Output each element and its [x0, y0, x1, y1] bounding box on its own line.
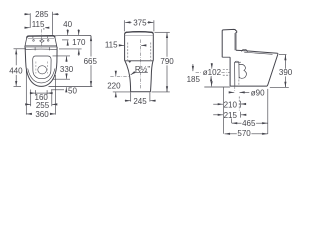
- lid joint line: [125, 35, 154, 37]
- cistern bottom shelf: [222, 56, 230, 58]
- svg-text:220: 220: [107, 81, 121, 90]
- dim 360 line arrows inside: [27, 113, 32, 115]
- dim 790 line: [166, 33, 168, 38]
- pan bottom: [230, 85, 267, 87]
- svg-text:330: 330: [60, 65, 74, 74]
- dim 255 ext right: [51, 90, 53, 107]
- cistern front double line: [25, 45, 57, 47]
- dim 440 ext top: [14, 48, 27, 50]
- dim 255 ext left: [30, 90, 32, 107]
- text 440: [9, 66, 23, 75]
- svg-text:ø90: ø90: [251, 89, 265, 98]
- dim 245 ext right: [149, 92, 151, 101]
- dim 245 ext left: [130, 92, 132, 101]
- dim 170 top arrow: [78, 29, 80, 35]
- water circle: [38, 66, 47, 74]
- cistern side outline: [222, 29, 237, 57]
- pan back wall: [229, 57, 231, 86]
- text 465: [242, 119, 257, 128]
- bowl left side: [125, 61, 131, 92]
- left ref line floor: [204, 86, 230, 88]
- dim 440 ext bottom: [14, 86, 22, 88]
- svg-text:115: 115: [105, 40, 118, 49]
- bottom ref line front: [49, 86, 93, 88]
- dim 40 top arrow: [67, 29, 69, 35]
- svg-text:570: 570: [237, 129, 251, 138]
- lid screw dot left: [33, 40, 35, 42]
- flush button: [40, 39, 44, 42]
- svg-text:665: 665: [84, 57, 98, 66]
- text 255: [35, 101, 50, 110]
- R leader shelf: [134, 71, 148, 73]
- svg-text:390: 390: [279, 68, 293, 77]
- bowl front profile: [267, 53, 278, 86]
- hidden outlet dashed right: [238, 80, 240, 86]
- hinge tick right: [49, 47, 51, 50]
- text 220: [107, 81, 121, 90]
- opening inner dashed right: [47, 62, 49, 74]
- seat opening: [33, 56, 51, 79]
- cistern inner wall dashed right: [150, 43, 152, 60]
- hidden pipe bottom dashed: [223, 74, 230, 76]
- dim 185 top arrow: [192, 64, 194, 71]
- svg-text:465: 465: [242, 119, 256, 128]
- centerline plan: [40, 29, 42, 48]
- svg-text:375: 375: [133, 18, 147, 27]
- dim 115 ext right: [43, 26, 45, 30]
- front ext vertical: [267, 89, 269, 134]
- text 215: [224, 111, 238, 120]
- dim 215 arrows: [213, 114, 223, 116]
- dim o102 top arrow: [211, 63, 213, 69]
- step to rim: [236, 49, 243, 51]
- dim 790 ext bottom: [152, 91, 170, 93]
- dim 50 line short: [51, 89, 64, 91]
- dim 375 ext right: [153, 20, 155, 31]
- dim 160 arrows: [30, 92, 35, 94]
- svg-text:215: 215: [224, 111, 238, 120]
- cistern plan outline: [25, 36, 57, 47]
- svg-text:285: 285: [35, 10, 49, 19]
- seat outer outline: [25, 47, 57, 86]
- cistern lid inner line: [28, 37, 54, 39]
- dim 570 line: [225, 133, 231, 135]
- dim 220 bottom arrow: [115, 92, 117, 97]
- R leader arrow: [131, 72, 135, 75]
- dim 255 arrows: [26, 103, 31, 105]
- dim 790 ext top: [155, 31, 170, 33]
- dim 115 arrows mid: [119, 44, 124, 46]
- text 330: [59, 65, 73, 74]
- dim 330 line: [66, 56, 68, 61]
- cistern bottom line: [125, 60, 154, 62]
- dim 210 arrows: [213, 103, 223, 105]
- line1 ext from cistern top: [55, 35, 92, 37]
- dim 170 bottom arrow: [78, 49, 80, 55]
- line3 ext seat back: [59, 48, 82, 50]
- opening inner dashed left: [35, 62, 37, 74]
- dashed ext o90 down: [238, 97, 240, 111]
- text 390: [278, 68, 292, 77]
- centerline middle view: [140, 40, 142, 89]
- dim 245 arrows: [125, 100, 131, 102]
- rim top line: [243, 51, 277, 54]
- dim 285 ext left: [29, 13, 31, 28]
- text 115: [31, 20, 45, 29]
- text 375: [133, 18, 148, 27]
- svg-text:360: 360: [35, 110, 49, 119]
- outlet centerline horizontal: [196, 71, 231, 73]
- hidden outlet dashed left: [234, 80, 236, 86]
- dim 375 line: [128, 21, 151, 23]
- right ref line floor: [270, 86, 289, 88]
- rim second line: [244, 52, 272, 54]
- dim 220 top arrow: [115, 71, 117, 76]
- svg-text:170: 170: [72, 38, 86, 47]
- dim 160 line: [36, 92, 48, 94]
- line2 ext 40: [62, 39, 69, 41]
- lid tick right: [47, 37, 49, 38]
- ext vertical 210 right: [240, 101, 242, 108]
- dim 285 arrows: [24, 13, 30, 15]
- bowl rim inner front arc: [28, 69, 55, 83]
- svg-text:115: 115: [32, 20, 45, 29]
- hinge bump: [242, 49, 248, 52]
- dim o90 arrow left: [230, 91, 234, 93]
- dim 185 bottom arrow: [211, 82, 213, 86]
- ext vertical 215 right hook: [240, 112, 242, 118]
- svg-text:790: 790: [160, 57, 174, 66]
- text 170: [72, 38, 86, 47]
- cistern front outline: [125, 32, 154, 61]
- dim 160 ext right: [46, 90, 48, 95]
- lid tick left: [32, 37, 34, 38]
- svg-text:440: 440: [9, 67, 23, 76]
- dim 390 line: [284, 55, 286, 60]
- dim 40 bottom arrow: [67, 40, 69, 44]
- dim 360 ext right: [55, 75, 57, 115]
- text o102: [203, 68, 222, 77]
- pedestal bottom: [131, 91, 151, 93]
- ext vertical 210-215 left: [223, 87, 225, 134]
- hidden pipe top dashed: [223, 68, 230, 70]
- dim o102 bottom arrow: [210, 76, 212, 80]
- dim 115 arrows: [25, 27, 30, 29]
- dim 465 line: [232, 122, 238, 124]
- svg-text:R½”: R½”: [135, 65, 150, 74]
- cistern lid top edge bold: [27, 36, 55, 38]
- dim o90 arrow right: [240, 91, 250, 93]
- dim 375 arrows: [125, 21, 130, 23]
- text 570: [237, 129, 252, 138]
- cistern top edge bold: [125, 32, 153, 34]
- svg-text:40: 40: [63, 20, 72, 29]
- svg-text:210: 210: [224, 100, 238, 109]
- cistern front inner line: [234, 33, 236, 50]
- dim 360 ext left: [25, 70, 27, 115]
- text 790: [160, 57, 175, 66]
- pipe cap line: [234, 61, 241, 63]
- dim 390 ext top: [279, 54, 286, 56]
- inlet centerline: [110, 76, 129, 78]
- text 210: [224, 100, 238, 109]
- cistern inner wall dashed left: [127, 43, 129, 60]
- hinge tick left: [34, 47, 36, 50]
- hook 465 left: [231, 118, 233, 123]
- trap beak: [239, 64, 246, 78]
- dim 440 line: [15, 49, 17, 55]
- text 665: [83, 57, 97, 66]
- dim 330 ext bottom: [53, 78, 71, 80]
- bowl right side: [151, 61, 154, 92]
- dim 50 arrow: [65, 87, 67, 91]
- seat back line: [25, 48, 56, 51]
- dim 330 ext top: [53, 55, 71, 57]
- diamond on bottom line: [129, 61, 131, 63]
- svg-text:50: 50: [68, 86, 77, 95]
- dim 375 ext left: [123, 20, 125, 31]
- text 245: [133, 97, 148, 106]
- dim 285 ext right: [51, 12, 53, 35]
- outlet centerline vertical: [234, 79, 236, 92]
- dim 160 ext left: [34, 90, 36, 95]
- dim 665 line: [90, 36, 92, 41]
- floor ext left: [113, 91, 131, 93]
- svg-text:245: 245: [133, 97, 147, 106]
- flush pipe: [235, 61, 240, 86]
- svg-text:185: 185: [187, 75, 201, 84]
- lid screw dot right: [47, 40, 49, 42]
- svg-text:ø102: ø102: [203, 68, 222, 77]
- text 360: [35, 110, 50, 119]
